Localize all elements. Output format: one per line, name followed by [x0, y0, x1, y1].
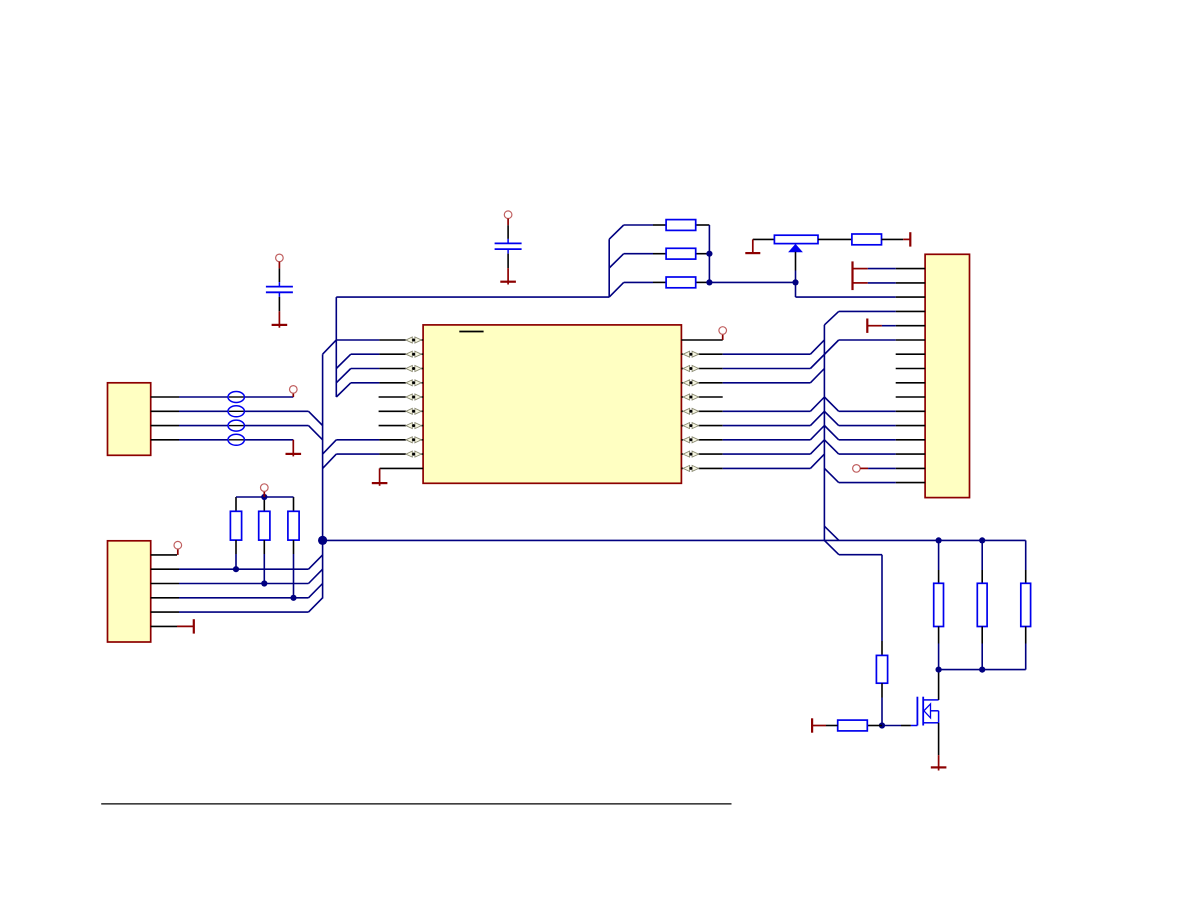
- wire row y282 to pot wiper: [709, 281, 795, 283]
- wire to ground: [292, 440, 294, 457]
- resistor R5: [230, 511, 241, 540]
- node port P5: [853, 465, 861, 473]
- resistor R2: [666, 248, 696, 259]
- wire diagonal B to IC left pin 9: [323, 454, 337, 468]
- pin IC right 5: [681, 396, 683, 398]
- wire R4 to bar: [882, 238, 904, 240]
- pin IC right 8: [681, 439, 683, 441]
- node junction wiper: [792, 279, 798, 285]
- wire wiper down to y297: [795, 282, 797, 297]
- potentiometer RP1 body: [774, 235, 818, 243]
- wire R9 to power bar: [826, 725, 838, 727]
- wire vertical feeder x609 for resistor stack: [608, 239, 610, 297]
- node junction bus B to net: [318, 536, 327, 545]
- wire pullup tie bar: [236, 496, 294, 498]
- wire J1-1 to bead: [179, 396, 229, 398]
- pin J2-4: [151, 597, 179, 599]
- wire bus-entry diagonal to R3: [609, 282, 624, 297]
- ground: [286, 453, 302, 455]
- potentiometer wiper arrow: [789, 245, 802, 252]
- node port P2: [174, 541, 182, 549]
- power bar J3 pin5: [866, 319, 868, 333]
- power bar J3 pins1-2: [851, 261, 853, 290]
- resistor R3 row wires: [624, 281, 653, 283]
- pin J3-12: [896, 425, 925, 427]
- pin 10 IC left ground pin: [380, 467, 424, 469]
- pin 3 right I/O marker: [683, 366, 690, 372]
- pin IC right 7: [681, 425, 683, 427]
- inductor bead L4: [228, 434, 244, 445]
- wire wiper stem: [795, 252, 797, 271]
- wire gate branch vertical: [881, 555, 883, 641]
- pin 4 left I/O marker: [406, 380, 412, 386]
- wire J2-5 run: [179, 611, 309, 613]
- pin 7 left I/O marker: [406, 423, 412, 429]
- wire bus-entry diagonal to R1: [609, 225, 624, 239]
- wire J3-4 diagonal to bus V top: [824, 311, 838, 325]
- wire bead2 out: [244, 410, 309, 412]
- resistor R9 gate pulldown: [838, 720, 868, 731]
- node port P4: [719, 327, 727, 335]
- wire J3-2 power stem: [853, 282, 868, 284]
- power bar left of pot: [752, 239, 754, 253]
- wire IC left pin 8: [336, 439, 379, 441]
- pin J2-1: [151, 554, 177, 556]
- wire diagonal to bus B: [309, 426, 323, 440]
- pin J2-3: [151, 583, 179, 585]
- wire diagonal B top to pin1 row: [323, 340, 337, 354]
- pin 5 left I/O marker: [406, 394, 412, 400]
- pin J2-2: [151, 568, 179, 570]
- pin 3 left I/O marker: [406, 366, 412, 372]
- wire pullup R5 top lead: [235, 497, 237, 511]
- wire J2-3 run: [179, 583, 309, 585]
- pin J3-2: [896, 282, 925, 284]
- pin 8 right I/O marker: [683, 437, 690, 443]
- pin IC right 6: [681, 410, 683, 412]
- wire source down: [938, 723, 940, 755]
- pin J3-9: [896, 382, 925, 384]
- wire port stub: [722, 334, 724, 340]
- pin J2-6: [151, 625, 177, 627]
- wire net A horizontal run y297: [336, 296, 609, 298]
- node junction R6 bottom: [261, 580, 267, 586]
- pin 9 left I/O marker: [406, 451, 412, 457]
- resistor R2 row wires: [624, 253, 653, 255]
- pin IC right 3: [681, 368, 683, 370]
- power bar J2-6: [193, 619, 195, 633]
- wire bead1 out to port: [244, 396, 293, 398]
- pin J1-2: [151, 410, 179, 412]
- node port P3: [261, 484, 269, 492]
- inductor bead L1: [228, 392, 244, 403]
- wire drain up: [938, 670, 940, 700]
- wire bus line B x322: [322, 354, 324, 598]
- transistor Q1 MOSFET: [911, 725, 918, 727]
- pin J3-13: [896, 439, 925, 441]
- capacitor C2 with port and ground bar: [504, 211, 512, 219]
- wire diagonal A to IC left pin 2: [336, 354, 351, 368]
- wire bottom tie: [939, 669, 1026, 671]
- wire J1-2 to bead: [179, 410, 229, 412]
- node junction top RaRb: [936, 537, 942, 543]
- wire sheet divider line: [101, 803, 731, 805]
- wire diagonal A to IC left pin 3: [336, 369, 351, 383]
- ground: [931, 766, 947, 768]
- resistor R3: [666, 277, 696, 288]
- wire main horizontal net y540: [323, 539, 1026, 541]
- resistor R8 gate series: [876, 655, 887, 683]
- wire diagonal to bus B: [309, 584, 323, 598]
- wire diagonal to bus B: [309, 598, 323, 612]
- pin 9 right I/O marker: [683, 451, 690, 457]
- wire junction to R9: [867, 725, 882, 727]
- pin IC right 9: [681, 453, 683, 455]
- op-amp U1 main IC body: [423, 325, 681, 483]
- pin J3-16: [896, 482, 925, 484]
- wire R10 top lead: [938, 540, 940, 570]
- inductor bead L2: [228, 406, 244, 417]
- resistor R12: [1021, 583, 1031, 626]
- pin J3-10: [896, 396, 925, 398]
- wire J1-4 to bead: [179, 439, 229, 441]
- wire J2-6 power stub: [177, 625, 194, 627]
- wire diagonal V bottom to gate branch: [824, 540, 839, 554]
- wire J3-16 diagonal from bus V: [824, 468, 838, 482]
- node junction gate: [879, 722, 885, 728]
- pin J3-8: [896, 368, 925, 370]
- wire port stub: [263, 491, 265, 497]
- resistor R6: [259, 511, 270, 540]
- wire bus line V x824: [823, 325, 825, 541]
- pin 1 left I/O marker: [406, 337, 412, 343]
- wire y297 run to connector J3 pin3: [796, 296, 896, 298]
- pin J3-4: [896, 310, 925, 312]
- pin IC right 4: [681, 382, 683, 384]
- wire R10 bottom lead: [938, 627, 940, 644]
- wire diagonal A to IC left pin 4: [336, 383, 351, 397]
- wire IC left pin 1 from bus A: [336, 339, 379, 341]
- wire IC left pin 2: [351, 353, 380, 355]
- wire gate lead: [882, 725, 901, 727]
- pin 7 right I/O marker: [683, 423, 690, 429]
- wire J3-1 power stem: [853, 268, 868, 270]
- wire IC left pin 4: [351, 382, 380, 384]
- wire below R8: [881, 683, 883, 697]
- pin 8 left I/O marker: [406, 437, 412, 443]
- power bar left of R9: [811, 718, 813, 732]
- wire bead3 out: [244, 425, 309, 427]
- wire pot right lead: [818, 238, 852, 240]
- wire J2-1 port stub: [177, 549, 179, 555]
- node junction R1R2 tie: [706, 251, 712, 257]
- wire R11 bottom lead: [981, 627, 983, 644]
- pin J3-6: [896, 339, 925, 341]
- pin 6 right I/O marker: [683, 408, 690, 414]
- wire pullup R7 top lead: [293, 497, 295, 511]
- connector J3 body: [925, 254, 969, 497]
- pin J3-14: [896, 453, 925, 455]
- node junction R5 bottom: [233, 566, 239, 572]
- pin 4 right I/O marker: [683, 380, 690, 386]
- wire J3-5 power stem: [867, 325, 882, 327]
- pin IC right 2: [681, 353, 683, 355]
- pin J3-15: [896, 467, 925, 469]
- node port P1: [290, 386, 298, 394]
- wire pot left lead: [753, 238, 775, 240]
- capacitor C1 with port and ground bar: [276, 254, 284, 262]
- wire R12 bottom lead: [1025, 627, 1027, 644]
- wire port stub: [292, 393, 294, 397]
- pin J3-1: [896, 268, 925, 270]
- wire pullup R7 bottom lead: [293, 540, 295, 554]
- power bar right of R4: [909, 232, 911, 246]
- wire bus line A x336: [335, 297, 337, 397]
- pin J3-7: [896, 353, 925, 355]
- wire bead4 out: [244, 439, 293, 441]
- wire right tie x709: [708, 225, 710, 282]
- wire J1-3 to bead: [179, 425, 229, 427]
- wire bus-entry diagonal to R2: [609, 254, 624, 268]
- overbar of pin name: [459, 331, 483, 333]
- resistor R11: [977, 583, 987, 626]
- resistor R1: [666, 220, 696, 231]
- pin stub IC left pin 6: [379, 410, 406, 412]
- pin stub IC left pin 5: [379, 396, 406, 398]
- wire pullup R5 bottom lead: [235, 540, 237, 554]
- node junction R3 tie: [706, 279, 712, 285]
- pin J1-3: [151, 425, 179, 427]
- node junction tie: [261, 494, 267, 500]
- resistor R7: [288, 511, 299, 540]
- wire R12 top lead: [1025, 540, 1027, 570]
- wire J2-4 run: [179, 597, 309, 599]
- pin stub IC left pin 7: [379, 425, 406, 427]
- wire R11 top lead: [981, 540, 983, 570]
- wire pullup R6 bottom lead: [263, 540, 265, 554]
- ground: [372, 482, 388, 484]
- wire IC left pin 9: [336, 453, 379, 455]
- pin J3-5: [896, 325, 925, 327]
- wire diagonal to bus B: [309, 555, 323, 569]
- inductor bead L3: [228, 420, 244, 431]
- resistor R10: [934, 583, 944, 626]
- pin 2 right I/O marker: [683, 351, 690, 357]
- pin J1-1: [151, 396, 179, 398]
- pin J2-5: [151, 611, 179, 613]
- resistor R1 row wires: [624, 224, 653, 226]
- wire pullup R6 top lead: [263, 497, 265, 511]
- node junction bottom RaRb: [936, 667, 942, 673]
- connector J2 body: [108, 541, 151, 642]
- pin J1-4: [151, 439, 179, 441]
- pin J3-3: [896, 296, 925, 298]
- connector J1 body: [108, 383, 151, 456]
- pin IC right 10: [681, 467, 683, 469]
- pin 2 left I/O marker: [406, 351, 412, 357]
- wire pin10 to ground: [379, 468, 381, 485]
- resistor R4: [852, 234, 882, 245]
- pin J3-11: [896, 410, 925, 412]
- pin 1 IC right to port: [681, 339, 722, 341]
- wire diagonal to bus B: [309, 411, 323, 425]
- wire J3-15 port stem: [860, 467, 868, 469]
- pin 6 left I/O marker: [406, 408, 412, 414]
- pin 10 right I/O marker: [683, 465, 690, 471]
- wire gate branch horizontal: [839, 554, 882, 556]
- node junction R7 bottom: [290, 595, 296, 601]
- wire IC left pin 3: [351, 368, 380, 370]
- wire diagonal B to IC left pin 8: [323, 440, 337, 454]
- wire diagonal V to net y540: [824, 526, 839, 540]
- pin 5 right I/O marker: [683, 394, 690, 400]
- wire diagonal to bus B: [309, 569, 323, 583]
- wire J2-2 run: [179, 568, 309, 570]
